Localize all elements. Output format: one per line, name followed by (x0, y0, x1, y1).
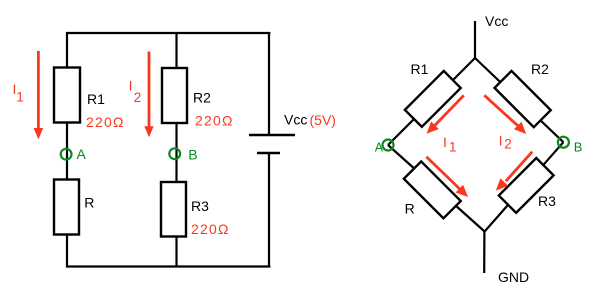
svg-text:A: A (77, 146, 87, 162)
resistor R (54, 180, 79, 235)
svg-text:I: I (499, 133, 503, 149)
svg-text:I: I (129, 78, 133, 94)
current arrow I1 bridge (427, 95, 464, 133)
battery plate long (249, 134, 295, 137)
wire branch2 top (175, 33, 177, 69)
svg-text:GND: GND (498, 269, 529, 285)
wire GND stub (483, 232, 485, 274)
svg-text:R2: R2 (531, 61, 549, 77)
svg-text:R: R (405, 200, 415, 216)
battery plate short (257, 152, 280, 155)
wire branch1 top (66, 32, 68, 68)
wire edge B to GND (485, 142, 564, 231)
resistor R2 (162, 68, 187, 123)
current arrow I2 left (144, 52, 153, 138)
svg-text:A: A (375, 141, 384, 155)
resistor R bridge (404, 161, 461, 218)
svg-text:I: I (443, 134, 447, 150)
current arrow I1 left (34, 51, 44, 139)
wire top rail (66, 32, 270, 34)
svg-text:R2: R2 (193, 90, 211, 106)
wire edge A to GND (388, 145, 485, 232)
wire battery bottom (268, 153, 270, 268)
svg-text:B: B (188, 147, 197, 163)
svg-text:1: 1 (16, 90, 24, 105)
resistor R2 bridge (495, 71, 551, 127)
current arrow B to GND bridge (496, 152, 533, 191)
svg-text:R1: R1 (411, 61, 429, 77)
svg-text:2: 2 (134, 90, 142, 105)
svg-text:B: B (574, 139, 583, 154)
wire R3 to bottom (175, 236, 177, 268)
wire R2 to R3 (175, 123, 177, 183)
resistor R1 (54, 68, 80, 123)
node B (169, 148, 180, 159)
resistor R3 bridge (499, 158, 554, 213)
svg-text:(5V): (5V) (310, 112, 336, 128)
svg-text:220Ω: 220Ω (195, 113, 234, 129)
svg-text:220Ω: 220Ω (86, 114, 125, 130)
current arrow I2 bridge (484, 95, 526, 134)
svg-text:R: R (84, 194, 94, 210)
svg-text:2: 2 (504, 136, 512, 151)
wire R to bottom (66, 234, 68, 268)
resistor R1 bridge (405, 71, 461, 127)
wire battery top (268, 32, 270, 135)
svg-text:Vcc: Vcc (284, 112, 307, 128)
node B bridge (558, 137, 569, 148)
wire R1 to R (66, 122, 68, 180)
svg-text:220Ω: 220Ω (191, 221, 230, 237)
resistor R3 (161, 182, 186, 237)
svg-text:R3: R3 (191, 198, 209, 214)
wire bottom rail (66, 265, 270, 267)
node A (61, 149, 72, 160)
svg-text:1: 1 (449, 140, 457, 155)
svg-text:R3: R3 (538, 193, 556, 209)
svg-text:Vcc: Vcc (485, 13, 508, 29)
wire edge Vcc to A (388, 58, 475, 145)
wire edge Vcc to B (475, 58, 563, 142)
wire Vcc stub right (474, 21, 476, 59)
node A bridge (383, 140, 394, 151)
current arrow A to GND bridge (426, 157, 468, 197)
svg-text:R1: R1 (87, 91, 105, 107)
